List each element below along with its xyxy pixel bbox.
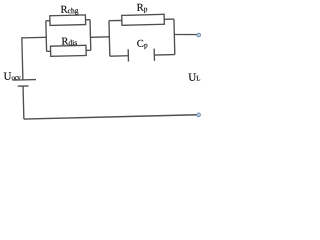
wire left rail lower (battery - to bottom rail)	[22, 86, 25, 119]
wire R_chg left stub	[46, 20, 50, 22]
battery U_ocv top plate (long)	[12, 79, 36, 82]
svg-text:Uocv: Uocv	[3, 70, 21, 82]
battery U_ocv bottom plate (short)	[18, 85, 29, 87]
node: block2 left bus	[108, 21, 111, 56]
wire capacitor left lead	[110, 55, 128, 57]
terminal negative (bottom right)	[197, 113, 201, 117]
resistor R_dis body	[50, 45, 86, 56]
wire capacitor right lead	[154, 54, 174, 57]
wire R_p left stub	[109, 19, 122, 21]
wire middle link	[90, 36, 109, 38]
svg-text:Cp: Cp	[137, 39, 148, 50]
wire bottom rail	[24, 115, 198, 119]
wire R_dis right stub	[86, 49, 91, 51]
terminal positive (top right)	[197, 33, 201, 37]
node: block1 left bus	[45, 21, 48, 52]
svg-text:Rdis: Rdis	[61, 36, 77, 47]
svg-text:UL: UL	[188, 71, 201, 83]
wire R_dis left stub	[47, 50, 51, 52]
wire left rail upper (top-left corner to battery +)	[22, 37, 47, 80]
resistor R_chg body	[50, 15, 86, 26]
svg-text:Rp: Rp	[137, 2, 148, 13]
wire output top	[174, 34, 197, 35]
node: block1 right bus	[89, 20, 92, 51]
capacitor C_p left plate	[127, 49, 129, 61]
node: block2 right bus	[173, 19, 176, 54]
resistor R_p body	[122, 14, 165, 25]
wire R_p right stub	[164, 18, 174, 20]
wire R_chg right stub	[86, 19, 90, 21]
svg-text:Rchg: Rchg	[60, 4, 78, 15]
capacitor C_p right plate	[153, 49, 155, 61]
